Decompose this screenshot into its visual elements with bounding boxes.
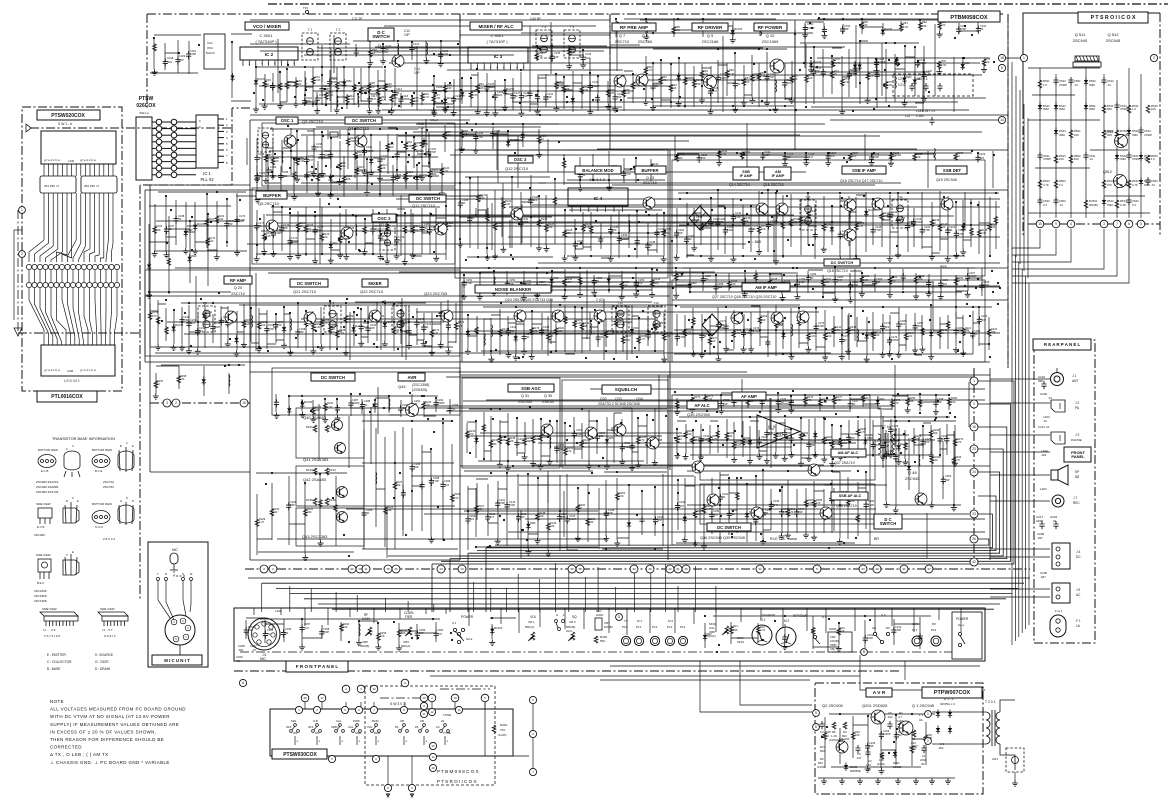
capacitor C104 (918, 633, 923, 641)
connector pins PTSW026 (152, 119, 196, 177)
svg-text:THEN REASON FOR DIFFERENC: THEN REASON FOR DIFFERENCE SHOULD BE (50, 737, 164, 742)
svg-text:10K: 10K (731, 282, 736, 286)
svg-text:G: G (618, 615, 621, 619)
svg-text:100: 100 (941, 225, 946, 229)
potentiometer VR2 (571, 632, 575, 640)
resistor network RS1 (40, 176, 76, 193)
coil 2.2µH (629, 220, 630, 232)
svg-text:2.2K: 2.2K (808, 501, 814, 505)
ground (895, 252, 901, 258)
coil 2.2µH (229, 375, 230, 387)
svg-text:1K: 1K (157, 382, 160, 386)
svg-text:43: 43 (861, 567, 865, 571)
resistor R137 (757, 226, 761, 233)
capacitor C260 (806, 275, 811, 283)
resistor R267 (904, 443, 908, 450)
capacitor C288 (360, 401, 365, 409)
svg-text:C135: C135 (554, 51, 561, 55)
IC2 chip TA7310P (240, 47, 298, 60)
svg-text:E: E (132, 444, 134, 448)
svg-text:220: 220 (297, 82, 302, 86)
capacitor C109 (175, 57, 180, 65)
capacitor C112 (319, 86, 324, 94)
ground (536, 152, 542, 158)
svg-text:IF AMP: IF AMP (772, 174, 785, 178)
svg-text:3.3K: 3.3K (965, 330, 971, 334)
svg-text:PTL0016COX: PTL0016COX (51, 394, 83, 400)
svg-text:470: 470 (469, 432, 474, 436)
svg-text:100: 100 (866, 763, 871, 767)
ground (748, 346, 754, 352)
svg-text:470P: 470P (477, 135, 483, 139)
svg-text:IF AMP: IF AMP (740, 174, 753, 178)
resistor R123 (493, 223, 497, 230)
svg-text:E : EMITTER: E : EMITTER (47, 653, 66, 657)
svg-text:C213 .01: C213 .01 (1038, 425, 1050, 429)
ground (254, 256, 260, 262)
diode MA150 (514, 334, 518, 343)
node 3 bus row (260, 565, 268, 573)
svg-text:C302: C302 (558, 443, 565, 447)
svg-text:100P: 100P (442, 52, 448, 56)
svg-text:100P: 100P (395, 176, 401, 180)
ground (394, 174, 400, 180)
resistor R32 (285, 82, 289, 89)
svg-text:MIXER / RF ALC: MIXER / RF ALC (478, 24, 514, 29)
svg-text:C123: C123 (436, 85, 443, 89)
svg-text:10K: 10K (985, 60, 990, 64)
coil 2.2µH (376, 472, 377, 484)
capacitor C293 (447, 405, 452, 413)
svg-text:BLOCK: BLOCK (206, 51, 215, 55)
capacitor C330 (937, 436, 942, 444)
node 4 sw (342, 685, 350, 693)
ground (263, 178, 269, 184)
ground (577, 291, 583, 297)
svg-text:IN60: IN60 (1107, 203, 1113, 207)
svg-text:IN60: IN60 (1120, 157, 1126, 161)
ground (310, 416, 316, 422)
label VCO/MIXER (245, 22, 289, 30)
svg-text:19: 19 (358, 567, 362, 571)
svg-text:Q22 2SC710: Q22 2SC710 (360, 289, 384, 294)
svg-text:470: 470 (380, 634, 385, 638)
resistor R266 (856, 429, 860, 436)
svg-text:2.2K: 2.2K (625, 338, 631, 342)
node 41 bus row (900, 565, 908, 573)
resistor R222 (987, 329, 991, 336)
capacitor C265 (926, 279, 931, 287)
svg-text:220: 220 (589, 520, 594, 524)
resistor R129 (582, 224, 586, 231)
ground (789, 452, 795, 458)
svg-text:100P: 100P (275, 231, 281, 235)
capacitor C145 (847, 71, 852, 79)
svg-text:4.7K: 4.7K (358, 169, 364, 173)
capacitor C176 (344, 229, 349, 237)
resistor R24 (837, 628, 841, 635)
svg-text:B C E: B C E (95, 469, 102, 473)
svg-text:4.7K: 4.7K (381, 98, 387, 102)
ground (328, 257, 334, 263)
capacitor C267 (965, 273, 970, 281)
resistor R69 (757, 73, 761, 80)
label DC SWITCH Q36 (707, 523, 751, 531)
cluster top left margin2 junction dots (231, 41, 233, 43)
ground (782, 643, 788, 649)
node 17 sw (318, 694, 326, 702)
svg-text:.02: .02 (787, 155, 791, 159)
ground (146, 292, 152, 298)
group box DC switch AVR (272, 368, 460, 415)
svg-text:/25: /25 (921, 762, 925, 766)
capacitor C130 (535, 94, 540, 102)
capacitor C350 (864, 501, 869, 509)
svg-text:.01: .01 (1059, 203, 1063, 207)
svg-text:24: 24 (972, 470, 976, 474)
label AM AF ALC (831, 449, 866, 457)
svg-text:22P: 22P (608, 511, 613, 515)
ground (535, 108, 541, 114)
resistor R49 (443, 85, 447, 92)
svg-text:IN60: IN60 (916, 77, 922, 81)
svg-text:R198: R198 (771, 277, 778, 281)
svg-text:IN EXCESS OF ± 20 % OF VA: IN EXCESS OF ± 20 % OF VALUES SHOWN, (50, 729, 156, 734)
svg-text:.02: .02 (398, 238, 402, 242)
capacitor C255 (592, 278, 597, 286)
cluster avr inner junction dots (821, 713, 913, 754)
wire chassis dash-dot left (30, 127, 232, 129)
svg-text:GP25G x 4: GP25G x 4 (940, 702, 955, 706)
front panel inner dash line (240, 651, 980, 653)
svg-text:C: C (66, 553, 68, 557)
node 23 right column (970, 445, 978, 453)
ground (502, 105, 508, 111)
coil 2.2µH (356, 224, 357, 236)
resistor R146 (938, 224, 942, 231)
resistor R268 (912, 436, 916, 443)
capacitor C305 (611, 425, 616, 433)
resistor R82 (919, 22, 923, 29)
svg-text:.02: .02 (267, 632, 271, 636)
capacitor C269 (675, 333, 680, 341)
svg-text:IN60: IN60 (1089, 107, 1095, 111)
capacitor C256 (634, 280, 639, 288)
ground (406, 343, 412, 349)
node 43 bus row (859, 565, 867, 573)
svg-text:470: 470 (323, 321, 328, 325)
capacitor C157 (304, 156, 309, 164)
svg-text:2SC1969: 2SC1969 (34, 594, 47, 598)
diode IN60 (630, 327, 634, 336)
resistor R158 (148, 312, 152, 319)
label AM IF AMP (742, 283, 790, 291)
ground (893, 507, 899, 513)
ground (756, 454, 762, 460)
svg-text:1000P: 1000P (455, 97, 463, 101)
svg-text:1K: 1K (957, 154, 960, 158)
svg-text:2SC900 2SAT19: 2SC900 2SAT19 (36, 480, 59, 484)
board border left lower vertical (139, 185, 141, 600)
capacitor C146 (875, 71, 880, 79)
node 2 sw (428, 694, 436, 702)
meter M1 (752, 625, 772, 645)
diode D522 (1115, 153, 1119, 162)
svg-text:50K(B): 50K(B) (360, 644, 369, 648)
svg-text:33K: 33K (687, 432, 692, 436)
ground (234, 350, 240, 356)
svg-text:33P: 33P (248, 628, 253, 632)
ground (364, 190, 370, 196)
capacitor C230 (179, 317, 184, 325)
resistor R302 (594, 636, 598, 643)
capacitor C124 (451, 96, 456, 104)
capacitor C334 (760, 398, 765, 406)
resistor R124 (502, 201, 506, 208)
board border top (147, 13, 1003, 15)
svg-text:3.3K: 3.3K (729, 72, 735, 76)
ground (649, 291, 655, 297)
node 6 (813, 724, 820, 731)
svg-text:470P: 470P (268, 327, 274, 331)
resistor R101 (205, 219, 209, 226)
node 40 bus row (873, 565, 881, 573)
svg-text:470: 470 (458, 324, 463, 328)
svg-text:.022: .022 (316, 145, 322, 149)
capacitor C127 (510, 93, 515, 101)
resistor R213 (823, 333, 827, 340)
svg-text:10K: 10K (850, 328, 855, 332)
svg-text:C355: C355 (267, 628, 274, 632)
wires PTSRO horizontal (1028, 67, 1100, 69)
svg-text:MA150: MA150 (419, 173, 428, 177)
svg-text:1.2K: 1.2K (831, 734, 837, 738)
svg-text:VCO / MIXER: VCO / MIXER (253, 24, 282, 29)
node A sw (401, 679, 409, 687)
svg-text:33K: 33K (933, 458, 938, 462)
capacitor C191 (518, 219, 523, 227)
svg-text:C303: C303 (576, 428, 583, 432)
capacitor C275 (765, 339, 770, 347)
node 13 sw (420, 694, 428, 702)
IF transformer T5 (564, 30, 580, 58)
svg-text:56K: 56K (864, 396, 869, 400)
label DC SWITCH Q18 (824, 259, 860, 266)
ground avr 916 (913, 778, 919, 784)
resistor R80 (860, 22, 864, 29)
diode MA150 (907, 463, 911, 472)
svg-text:56K: 56K (600, 639, 605, 643)
svg-text:252 18K x7: 252 18K x7 (84, 184, 100, 188)
svg-text:251 18K x7: 251 18K x7 (44, 184, 60, 188)
svg-text:DC SWITCH: DC SWITCH (297, 281, 321, 286)
wires display fan upper (29, 164, 113, 262)
capacitor C134 (613, 94, 618, 102)
board PTSW020COX outline (22, 107, 122, 391)
svg-text:470: 470 (454, 496, 459, 500)
capacitor C223 (697, 155, 702, 163)
svg-text:N.B: N.B (313, 719, 318, 723)
svg-text:2SC1969: 2SC1969 (762, 39, 779, 44)
resistor R253 (676, 436, 680, 443)
diode D502 (1084, 78, 1088, 87)
jack J3 PHONE (1051, 432, 1065, 444)
svg-text:470: 470 (863, 23, 868, 27)
svg-text:15: 15 (457, 708, 461, 712)
node 15 sw2 (455, 706, 462, 713)
ground (518, 110, 524, 116)
transistor Q24 (514, 310, 526, 322)
LED display block DS1 (41, 131, 116, 164)
ground (562, 255, 568, 261)
capacitor C285 (274, 399, 279, 407)
svg-text:43: 43 (632, 567, 636, 571)
capacitor C246 (506, 328, 511, 336)
ground (772, 106, 778, 112)
svg-text:IN60: IN60 (691, 281, 697, 285)
ground (318, 540, 324, 546)
node 13 bus row (437, 565, 445, 573)
ground (334, 107, 340, 113)
ground (439, 190, 445, 196)
resistor R105 (304, 225, 308, 232)
dashed box around switch block (365, 686, 495, 785)
ground (403, 175, 409, 181)
connector J5 AC (1052, 583, 1070, 603)
svg-text:R51: R51 (479, 82, 484, 86)
capacitor C314 (557, 514, 562, 522)
svg-text:15: 15 (242, 401, 246, 405)
wire PTSRO drop bundle (1012, 229, 1129, 283)
resistor R125 (537, 220, 541, 227)
resistor R153 (740, 152, 744, 159)
IC1 PLL02 chip (196, 115, 218, 168)
resistor R163 (257, 322, 261, 329)
svg-text:4700P: 4700P (1043, 157, 1051, 161)
ground (698, 454, 704, 460)
board REAR PANEL outline (1034, 340, 1095, 643)
ground (888, 452, 894, 458)
svg-text:.01: .01 (703, 334, 707, 338)
svg-text:33P: 33P (810, 443, 815, 447)
svg-text:C350: C350 (868, 499, 875, 503)
resistor R59 (567, 48, 571, 55)
capacitor C342 (727, 510, 732, 518)
capacitor C169 (224, 221, 229, 229)
svg-text:R64: R64 (696, 78, 701, 82)
cluster VCO lower junction dots (304, 88, 449, 113)
resistor R254 (684, 431, 688, 438)
ground (836, 645, 842, 651)
svg-text:R209: R209 (761, 314, 768, 318)
capacitor C116 (315, 95, 320, 103)
svg-text:33P: 33P (786, 431, 791, 435)
transistor Q4 (355, 135, 367, 147)
resistor R95 (412, 143, 416, 150)
capacitor C151 (822, 26, 827, 34)
capacitor C289 (372, 401, 377, 409)
resistor R40 (383, 84, 387, 91)
svg-text:33P: 33P (510, 329, 515, 333)
text NOTE block (50, 699, 186, 765)
svg-text:E C B: E C B (37, 525, 44, 529)
svg-text:.01: .01 (810, 276, 814, 280)
svg-text:.001: .001 (1041, 453, 1047, 457)
svg-text:100: 100 (370, 85, 375, 89)
ground (431, 107, 437, 113)
svg-text:33P: 33P (844, 27, 849, 31)
ground (277, 103, 283, 109)
svg-text:C229: C229 (979, 152, 986, 156)
cluster ant filter wires (811, 58, 990, 69)
svg-text:MA150: MA150 (175, 323, 184, 327)
diode ring balance mod (689, 206, 711, 230)
capacitor C348 (829, 496, 834, 504)
capacitor (1039, 521, 1044, 529)
capacitor C164 (426, 149, 431, 157)
transistor Q44 (406, 404, 419, 417)
resistor R292 (930, 457, 934, 464)
jack J1 ANT (1051, 373, 1064, 386)
svg-text:VOL: VOL (530, 615, 537, 619)
svg-text:33K: 33K (696, 82, 701, 86)
node 1 (19, 207, 26, 214)
svg-text:R100: R100 (156, 224, 163, 228)
svg-text:.047: .047 (808, 155, 814, 159)
capacitor C227 (826, 153, 831, 161)
node 43 bus row (630, 565, 638, 573)
resistor R248 (536, 513, 540, 520)
cluster mixer area wires (434, 70, 634, 112)
resistor R57 (631, 82, 635, 89)
svg-text:22P: 22P (370, 326, 375, 330)
svg-text:J 1: J 1 (1072, 374, 1076, 378)
ground (619, 459, 625, 465)
svg-text:22P: 22P (306, 99, 311, 103)
svg-text:2.2K: 2.2K (707, 397, 713, 401)
ground (310, 348, 316, 354)
svg-text:S W 3 0 1: S W 3 0 1 (390, 702, 405, 706)
svg-text:10K: 10K (675, 28, 680, 32)
node 8 (998, 64, 1005, 71)
resistor R67 (742, 78, 746, 85)
svg-text:.047: .047 (382, 234, 388, 238)
svg-text:C360: C360 (437, 628, 444, 632)
svg-text:820: 820 (818, 761, 823, 765)
svg-text:33P: 33P (547, 95, 552, 99)
svg-text:5: 5 (1140, 222, 1142, 226)
coil 2.2µH (305, 77, 306, 89)
resistor R75 (884, 82, 888, 89)
capacitor C300 (286, 502, 291, 510)
node 23 right column (970, 510, 978, 518)
svg-text:100: 100 (808, 76, 813, 80)
svg-text:33K: 33K (991, 330, 996, 334)
svg-text:33P: 33P (888, 452, 893, 456)
resistor R161 (203, 312, 207, 319)
ground (521, 349, 527, 355)
resistor R244 (587, 433, 591, 440)
svg-text:10K: 10K (550, 524, 555, 528)
resistor R173 (439, 311, 443, 318)
mic connector plug (165, 615, 195, 645)
wires to rear panel (990, 379, 1050, 597)
svg-text:2SC460: 2SC460 (638, 39, 653, 44)
ground (691, 245, 697, 251)
svg-text:10K: 10K (1059, 157, 1064, 161)
cluster front right wires (705, 616, 931, 649)
svg-text:1K: 1K (579, 506, 582, 510)
